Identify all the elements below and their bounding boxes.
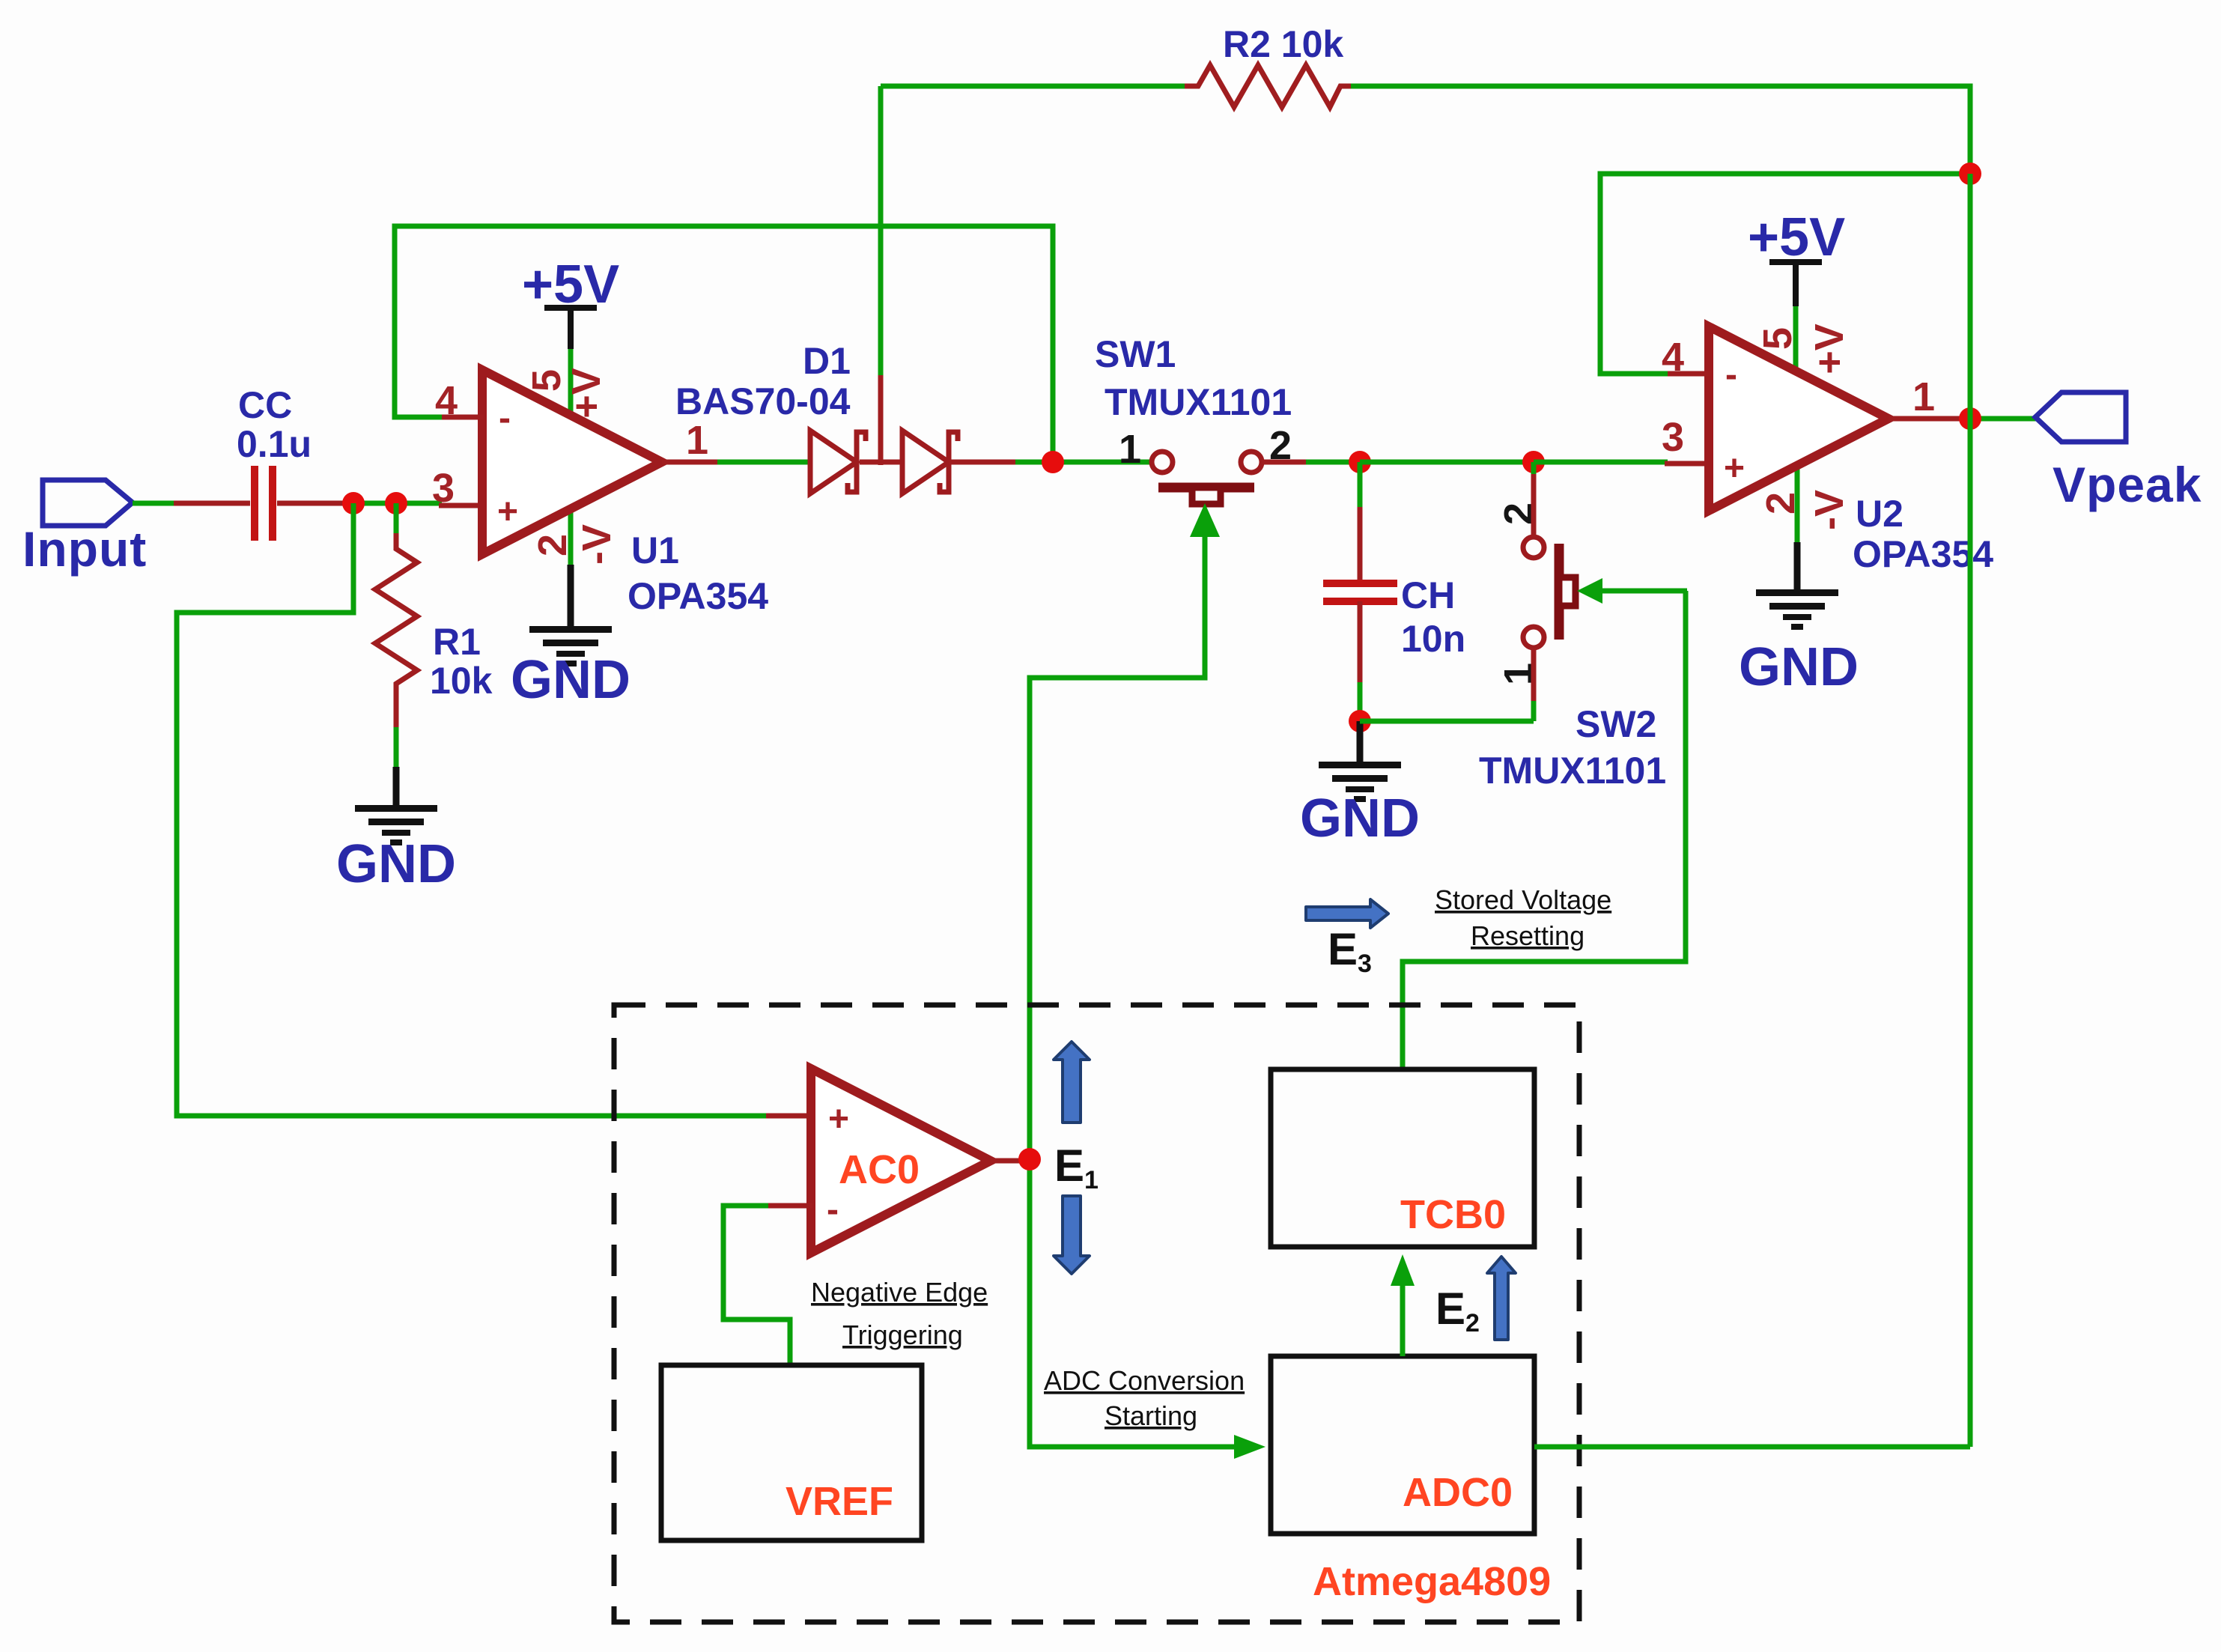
capacitor CH [1323,574,1465,660]
svg-text:TMUX1101: TMUX1101 [1105,381,1292,423]
MCU dashed box Atmega4809 [614,1005,1579,1622]
wire U1 pin3 stub [439,503,484,508]
wire SW2 pin1 lead [1531,648,1537,721]
wire top rail with R2 [881,84,1198,89]
svg-text:Triggering: Triggering [842,1320,963,1350]
svg-text:1: 1 [1912,374,1935,419]
port Input [22,480,147,577]
node junction E1 [1018,1148,1041,1170]
op-amp U2 [1709,327,1993,575]
wire between D1 diodes [860,460,905,465]
svg-text:1: 1 [1119,427,1141,472]
wire CC right lead [277,501,356,506]
wire E2 ADC0 to TCB0 with arrow [1391,1254,1415,1356]
svg-text:10n: 10n [1401,618,1465,660]
svg-text:3: 3 [1662,415,1684,460]
wire AC0 minus to VREF [723,1206,812,1367]
wire between junctions to U1 pin3 [353,501,442,506]
svg-text:D1: D1 [803,340,851,382]
wire SW1 pin2 to junction [1262,460,1363,465]
svg-text:ADC0: ADC0 [1403,1470,1513,1515]
block TCB0 [1271,1069,1534,1247]
svg-text:+5V: +5V [1748,207,1845,267]
svg-text:-: - [827,1190,839,1230]
svg-text:U2: U2 [1856,493,1904,535]
svg-text:VREF: VREF [786,1479,893,1524]
svg-text:10k: 10k [430,660,493,702]
node junction output Vpeak [1959,407,1981,430]
svg-text:GND: GND [511,650,631,710]
wire D1 cathode junction vertical [878,86,884,465]
node junction CH [1349,451,1371,473]
diode D1b [902,431,958,494]
wire trunk vertical [1968,174,1973,1447]
wire U2 pin3 stub [1665,461,1710,467]
wire E1 trunk to ADC0 with arrow [1030,1159,1266,1459]
wire junction SW2 to U2 pin3 [1534,460,1668,465]
ground below CH [1300,721,1420,848]
diode D1a [810,431,866,494]
svg-text:5: 5 [524,369,569,392]
svg-text:CC: CC [238,384,292,426]
wire SW2 control with arrow [1403,578,1687,1072]
svg-text:GND: GND [1300,789,1420,848]
wire U2 pin4 feedback loop [1600,174,1970,374]
wire U2 output [1889,416,2040,422]
block ADC0 [1271,1356,1534,1534]
op-amp U1 [482,370,768,617]
svg-text:+V: +V [1807,324,1852,374]
svg-text:+: + [1724,449,1745,488]
wire ADC0 output to trunk [1534,1445,1970,1450]
wire U2 pin5 [1793,303,1799,374]
node junction B [385,492,407,514]
capacitor CC [237,384,312,541]
comparator AC0 [811,1069,991,1253]
svg-text:GND: GND [336,834,456,894]
wire junction B down to R1 [394,503,399,536]
svg-text:+V: +V [564,368,609,419]
svg-text:TCB0: TCB0 [1400,1192,1506,1237]
svg-text:-V: -V [574,524,619,565]
svg-text:0.1u: 0.1u [237,423,312,465]
annotation Negative Edge Triggering [811,1277,988,1350]
port Vpeak [2035,392,2202,512]
wire U1 output [662,460,812,465]
ground below R1 [336,767,456,894]
node junction SW2 [1522,451,1545,473]
wire CC left lead [174,501,250,506]
arrow blue E1 up [1054,1042,1090,1123]
svg-text:Negative Edge: Negative Edge [811,1277,988,1308]
arrow blue E3 right [1306,899,1388,928]
node junction D1-SW1 [1042,451,1064,473]
resistor R2 [1185,23,1353,107]
wire CH junction to SW2 pin1 [1360,719,1534,724]
wire junction CH to SW2 junction [1360,460,1537,465]
svg-text:1: 1 [686,418,708,463]
arrow blue E2 up [1487,1257,1516,1340]
wire AC0 plus input stub [766,1114,812,1119]
switch SW1 [1095,333,1292,504]
wire CH top lead [1358,462,1363,583]
wire Input to CC [133,501,180,506]
svg-text:2: 2 [530,534,575,556]
wire SW2 pin2 lead [1531,462,1537,537]
svg-text:Stored Voltage: Stored Voltage [1435,884,1611,915]
svg-text:Input: Input [22,521,147,577]
svg-text:-: - [499,398,511,438]
block VREF [661,1365,922,1540]
svg-text:CH: CH [1401,574,1455,616]
svg-text:GND: GND [1739,637,1859,697]
svg-text:5: 5 [1755,327,1800,350]
node junction CH-gnd [1349,710,1371,732]
svg-text:SW2: SW2 [1576,703,1656,745]
wire D1b output to SW1 [950,460,1153,465]
wire U1 pin4 feedback loop [395,226,1053,465]
node junction A [342,492,365,514]
power +5V above U2 [1748,207,1845,306]
node junction feedback trunk [1959,163,1981,185]
svg-text:BAS70-04: BAS70-04 [675,380,851,422]
svg-text:Atmega4809: Atmega4809 [1313,1559,1551,1604]
arrow blue E1 down [1054,1196,1090,1274]
svg-text:2: 2 [1758,492,1803,514]
svg-text:+: + [828,1099,849,1139]
svg-text:R1: R1 [433,621,481,663]
svg-text:Resetting: Resetting [1471,920,1585,951]
svg-text:TMUX1101: TMUX1101 [1479,750,1666,792]
wire R2 to trunk [1351,86,1970,177]
switch SW2 [1479,537,1666,792]
ground below U2 [1739,542,1859,697]
svg-text:+: + [497,492,518,532]
wire U1 pin5 [568,346,574,416]
svg-text:-V: -V [1807,490,1852,530]
svg-text:Starting: Starting [1105,1400,1197,1431]
wire SW1 control with arrow [1030,503,1220,1159]
annotation ADC Conversion Starting [1044,1365,1245,1431]
svg-text:ADC Conversion: ADC Conversion [1044,1365,1245,1396]
svg-text:Vpeak: Vpeak [2053,457,2202,512]
svg-text:3: 3 [432,466,455,511]
svg-text:R2 10k: R2 10k [1223,23,1343,65]
svg-text:-: - [1725,355,1737,395]
wire U1 pin2 [568,508,574,568]
svg-text:U1: U1 [631,529,679,571]
power +5V above U1 [522,255,619,349]
ground below U1 [511,565,631,710]
wire junction A down-left to AC0 input [177,503,768,1116]
wire U2 pin2 [1795,464,1800,545]
resistor R1 [375,533,493,730]
svg-text:OPA354: OPA354 [628,575,768,617]
wire CH bottom lead [1358,601,1363,724]
annotation Stored Voltage Resetting [1435,884,1611,951]
svg-text:AC0: AC0 [839,1147,920,1192]
wire R1 to ground [394,727,399,771]
wire AC0 output [991,1158,1033,1164]
svg-text:SW1: SW1 [1095,333,1176,375]
